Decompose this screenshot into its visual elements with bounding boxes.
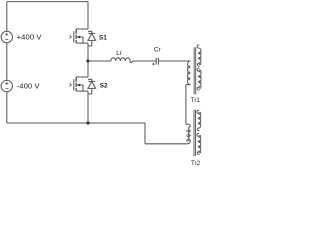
S1 gate chevron [70, 36, 72, 39]
S2 body-source link [82, 85, 84, 91]
wire midpoint to Lr [88, 60, 111, 62]
S2 gate bar [73, 79, 75, 90]
wire left rail upper [6, 2, 8, 32]
svg-text:S2: S2 [100, 83, 108, 90]
wire bottom rail [7, 122, 145, 124]
S1 body-source link [82, 37, 84, 43]
S1 body arrow [77, 36, 83, 38]
S1 gate bar [73, 31, 75, 42]
Tr1 secondary lower [199, 70, 201, 88]
Tr2 primary winding [187, 130, 189, 141]
capacitor Cr [156, 58, 158, 65]
S2 drain bar [76, 76, 88, 78]
svg-text:S1: S1 [99, 35, 107, 42]
diode D1 cathode bar [88, 32, 95, 34]
transformer Tr1 [186, 45, 201, 94]
S2 channel bar [75, 77, 77, 91]
wire between sources [6, 43, 8, 80]
diode D2 triangle [88, 82, 96, 89]
inductor Lr [111, 58, 132, 63]
wire left rail lower [6, 92, 8, 123]
transistor S1 [70, 29, 96, 46]
diode D2 cathode bar [88, 80, 95, 82]
wire top rail [7, 1, 88, 3]
S2 body arrow [77, 84, 83, 86]
svg-text:Lr: Lr [116, 50, 122, 57]
S1 drain bar [76, 28, 88, 30]
wire S1 source to midpoint [87, 43, 89, 61]
wire Cr to Tr1 [158, 60, 190, 62]
Tr2 secondary upper [199, 112, 201, 124]
transistor S2 [70, 77, 96, 94]
svg-text:-400 V: -400 V [17, 82, 41, 91]
Tr2 secondary lower [199, 135, 201, 153]
Tr1 secondary upper [199, 52, 201, 65]
S1 source bar [76, 42, 88, 44]
diode D1 triangle [88, 34, 96, 41]
wire S2 drain lead [87, 61, 89, 77]
diode D2 top connection [88, 79, 92, 81]
Tr1 primary winding [188, 66, 190, 80]
diode D2 anode lead [88, 88, 92, 94]
S2 gate chevron [70, 84, 72, 87]
svg-text:Tr1: Tr1 [191, 97, 201, 104]
Tr1 primary bottom lead [186, 84, 191, 86]
svg-text:+400 V: +400 V [17, 33, 43, 42]
wire Lr to Cr [132, 60, 156, 63]
svg-text:Cr: Cr [154, 47, 161, 54]
S1 channel bar [75, 29, 77, 43]
junction bottom rail / S2 source [86, 121, 89, 124]
wire S2 source to bottom rail [87, 91, 89, 123]
wire riser to Tr2 [145, 143, 188, 145]
wire bottom riser [144, 123, 146, 144]
wire S1 drain lead [87, 2, 89, 29]
wire Tr1 to Tr2 link [185, 85, 187, 125]
Tr1 core [194, 47, 196, 94]
Tr2 core [194, 110, 196, 156]
voltage source V1 [1, 31, 12, 42]
diode D1 anode lead [88, 40, 92, 46]
polarity + of Cr [152, 63, 154, 65]
voltage source V2 [1, 80, 12, 91]
S2 source bar [76, 90, 88, 92]
svg-text:Tr2: Tr2 [191, 160, 201, 167]
node midpoint junction [86, 59, 89, 62]
diode D1 top connection [88, 31, 92, 33]
transformer Tr2 [186, 110, 201, 156]
